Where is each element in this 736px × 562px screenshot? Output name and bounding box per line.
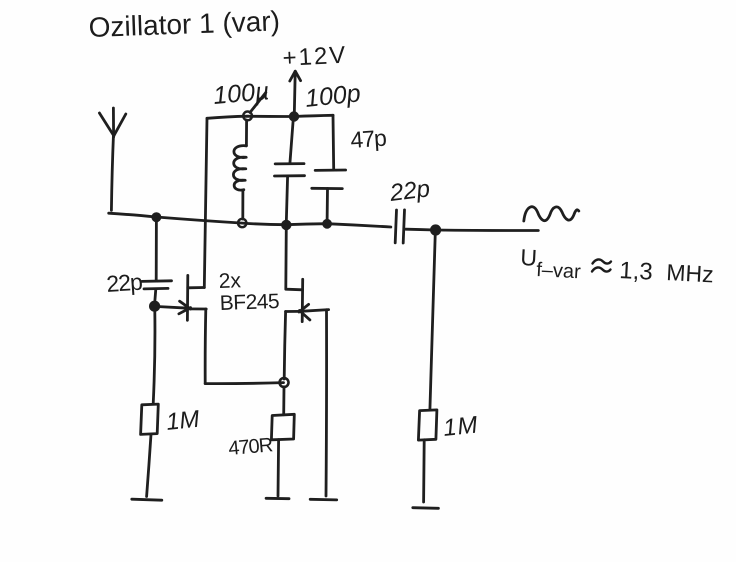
node bus-22p junction	[153, 214, 160, 221]
svg-text:1M: 1M	[165, 406, 201, 436]
wire 22p top lead	[155, 218, 158, 281]
node inductor bottom (ring)	[238, 219, 246, 227]
svg-text:f–var: f–var	[536, 259, 582, 283]
wire Q2 drain from bus	[286, 226, 303, 290]
wire gate Q1	[155, 306, 189, 308]
transistor Q1 channel	[186, 275, 189, 320]
resistor R 470R lead bottom	[277, 440, 280, 496]
wire Q2 gate to ground	[325, 310, 328, 496]
resistor R 470R lead top	[282, 387, 285, 415]
svg-text:U: U	[520, 244, 538, 271]
transistor Q2 gate wire	[301, 310, 329, 312]
capacitor C 100p	[290, 117, 294, 164]
node inductor top (ring)	[243, 112, 252, 121]
svg-text:1M: 1M	[442, 411, 480, 442]
resistor R 1M right lead bottom	[422, 440, 425, 502]
wire Q1 source to common node	[205, 383, 283, 384]
resistor R 470R body	[271, 414, 294, 440]
resistor R 1M right body	[418, 410, 437, 440]
wire output node down to 1M right	[430, 232, 435, 410]
resistor R 1M left lead top	[153, 310, 155, 404]
svg-text:BF245: BF245	[219, 290, 279, 315]
svg-text:470R: 470R	[228, 434, 274, 460]
wire top rail	[207, 115, 333, 118]
svg-text:22p: 22p	[387, 175, 431, 207]
svg-text:1,3: 1,3	[619, 257, 654, 286]
transistor Q1 drain lead	[188, 286, 205, 289]
ground 1M right	[413, 506, 439, 509]
svg-text:Ozillator 1 (var): Ozillator 1 (var)	[88, 5, 280, 43]
svg-text:22p: 22p	[106, 269, 143, 297]
leader line 100u label	[250, 93, 266, 113]
svg-text:100µ: 100µ	[212, 77, 270, 110]
ground Q2 gate	[310, 498, 337, 501]
node common source (ring)	[280, 378, 289, 387]
wire main bus	[109, 213, 391, 227]
ground 1M left	[132, 499, 162, 500]
capacitor C 22p coupling plates	[395, 210, 396, 243]
node +12V junction	[290, 113, 298, 121]
transistor Q2 gate arrow	[299, 304, 309, 312]
transistor Q2 source lead	[286, 310, 301, 313]
node gate Q1	[150, 302, 158, 310]
svg-text:2x: 2x	[218, 269, 241, 293]
capacitor C 47p	[315, 169, 345, 172]
wire rail right corner down	[332, 115, 336, 170]
antenna	[99, 113, 113, 136]
inductor L 100u	[245, 120, 248, 146]
svg-text:100p: 100p	[304, 79, 362, 113]
node 47p-bus junction	[324, 220, 331, 227]
transistor Q1 gate arrow	[180, 301, 191, 309]
wire Q1 drain to top rail	[204, 118, 207, 287]
transistor Q1 source lead	[188, 307, 206, 310]
resistor R 1M left body	[141, 404, 159, 434]
transistor Q2 channel	[301, 279, 304, 321]
symbol sine output	[524, 207, 579, 221]
node output junction	[431, 226, 439, 234]
svg-text:47p: 47p	[350, 125, 387, 153]
capacitor C 22p (left)	[142, 279, 172, 282]
resistor R 1M left lead bottom	[147, 434, 151, 496]
wire output right of cap	[406, 229, 539, 230]
ground 470R	[266, 497, 289, 500]
power +12V arrow	[293, 73, 297, 115]
svg-text:+12V: +12V	[282, 42, 348, 72]
svg-text:MHz: MHz	[666, 259, 715, 287]
node 100p-bus junction	[283, 221, 291, 229]
